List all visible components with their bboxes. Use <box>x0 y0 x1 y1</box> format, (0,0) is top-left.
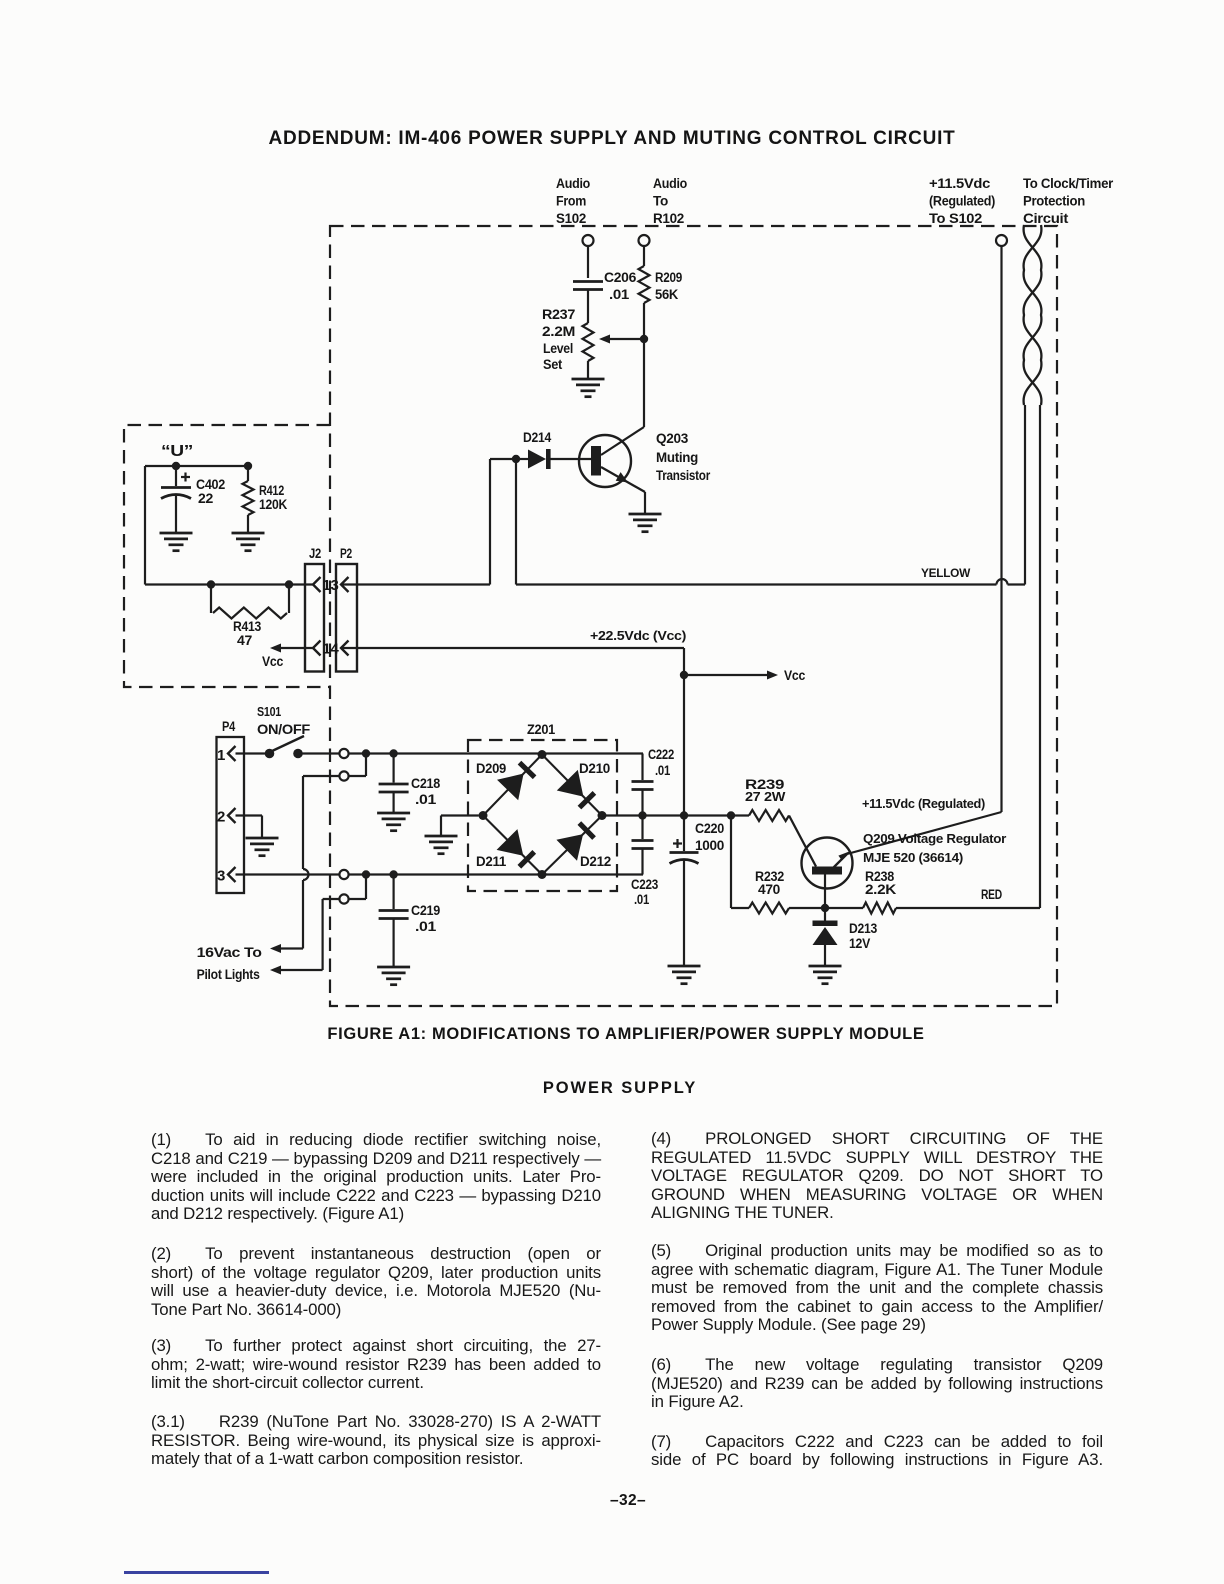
svg-text:C222: C222 <box>648 747 674 762</box>
svg-text:Vcc: Vcc <box>262 654 284 669</box>
svg-text:J2: J2 <box>309 546 321 561</box>
svg-text:R102: R102 <box>653 211 684 226</box>
svg-text:2.2M: 2.2M <box>542 324 575 339</box>
svg-text:1000: 1000 <box>695 838 724 853</box>
svg-text:D213: D213 <box>849 921 878 936</box>
svg-text:D212: D212 <box>580 854 611 869</box>
svg-text:To: To <box>653 194 668 209</box>
svg-text:+11.5Vdc: +11.5Vdc <box>929 176 991 191</box>
svg-text:Transistor: Transistor <box>656 468 711 483</box>
svg-text:(Regulated): (Regulated) <box>929 194 995 209</box>
svg-text:3: 3 <box>217 868 225 885</box>
svg-text:P4: P4 <box>222 719 236 734</box>
svg-text:Audio: Audio <box>653 176 687 191</box>
svg-text:D209: D209 <box>476 761 506 776</box>
svg-text:120K: 120K <box>259 497 287 512</box>
svg-text:14: 14 <box>323 642 339 658</box>
svg-text:C218: C218 <box>411 776 441 791</box>
svg-text:Q209 Voltage Regulator: Q209 Voltage Regulator <box>863 832 1006 846</box>
svg-text:ON/OFF: ON/OFF <box>257 722 310 737</box>
svg-text:2.2K: 2.2K <box>865 882 897 897</box>
svg-text:.01: .01 <box>655 763 671 778</box>
svg-text:Audio: Audio <box>556 176 590 191</box>
svg-text:RED: RED <box>981 887 1002 902</box>
svg-text:YELLOW: YELLOW <box>921 566 971 580</box>
svg-text:R209: R209 <box>655 270 682 285</box>
svg-text:C219: C219 <box>411 903 440 918</box>
svg-text:56K: 56K <box>655 287 679 302</box>
svg-text:R412: R412 <box>259 483 284 498</box>
svg-text:D211: D211 <box>476 854 507 869</box>
svg-text:R237: R237 <box>542 307 575 322</box>
svg-text:16Vac To: 16Vac To <box>197 945 262 960</box>
svg-text:Level: Level <box>543 341 573 356</box>
svg-text:P2: P2 <box>340 546 352 561</box>
svg-text:C220: C220 <box>695 821 724 836</box>
svg-text:Muting: Muting <box>656 450 698 465</box>
svg-text:22: 22 <box>198 491 213 506</box>
svg-text:47: 47 <box>237 633 252 648</box>
svg-text:Vcc: Vcc <box>784 668 806 683</box>
svg-text:.01: .01 <box>609 287 630 302</box>
svg-text:Circuit: Circuit <box>1023 211 1069 226</box>
svg-text:To S102: To S102 <box>929 211 982 226</box>
svg-text:Pilot Lights: Pilot Lights <box>197 967 260 982</box>
svg-text:470: 470 <box>758 882 780 897</box>
svg-text:From: From <box>556 194 586 209</box>
svg-text:.01: .01 <box>415 792 437 807</box>
svg-text:Set: Set <box>543 357 563 372</box>
svg-text:D214: D214 <box>523 430 552 445</box>
svg-text:Protection: Protection <box>1023 194 1085 209</box>
svg-text:.01: .01 <box>634 892 650 907</box>
svg-text:Q203: Q203 <box>656 431 689 446</box>
svg-text:C206: C206 <box>604 270 637 285</box>
svg-text:27 2W: 27 2W <box>745 790 786 804</box>
svg-text:To Clock/Timer: To Clock/Timer <box>1023 176 1114 191</box>
svg-text:S102: S102 <box>556 211 586 226</box>
svg-text:“U”: “U” <box>161 443 193 460</box>
svg-text:C402: C402 <box>196 477 225 492</box>
svg-text:+22.5Vdc (Vcc): +22.5Vdc (Vcc) <box>590 629 686 643</box>
svg-text:1: 1 <box>217 747 225 764</box>
svg-text:.01: .01 <box>415 919 437 934</box>
svg-text:R413: R413 <box>233 619 262 634</box>
svg-text:S101: S101 <box>257 705 281 719</box>
svg-text:2: 2 <box>217 809 225 826</box>
svg-text:+11.5Vdc (Regulated): +11.5Vdc (Regulated) <box>862 797 985 811</box>
svg-text:MJE 520 (36614): MJE 520 (36614) <box>863 851 963 865</box>
svg-text:C223: C223 <box>631 877 659 892</box>
svg-text:12V: 12V <box>849 936 870 951</box>
svg-text:Z201: Z201 <box>527 722 556 737</box>
svg-text:13: 13 <box>323 578 339 594</box>
svg-text:D210: D210 <box>579 761 610 776</box>
